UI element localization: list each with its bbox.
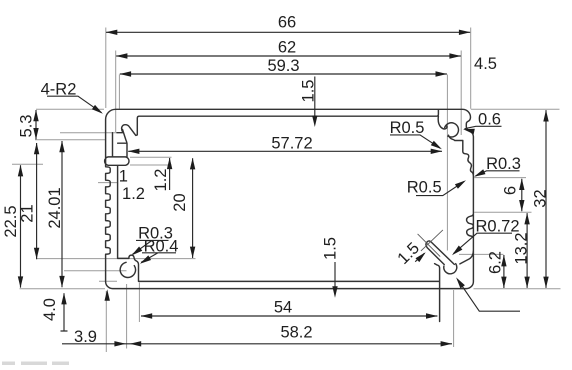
- svg-text:32: 32: [531, 189, 549, 207]
- svg-text:22.5: 22.5: [2, 205, 20, 237]
- svg-text:6.2: 6.2: [486, 251, 504, 274]
- svg-text:1.2: 1.2: [122, 185, 145, 203]
- svg-text:59.3: 59.3: [267, 57, 299, 75]
- svg-text:57.72: 57.72: [271, 135, 312, 153]
- svg-text:R0.4: R0.4: [144, 237, 179, 255]
- svg-text:13.2: 13.2: [512, 232, 530, 264]
- svg-text:0.6: 0.6: [478, 110, 501, 128]
- svg-text:4.0: 4.0: [41, 298, 59, 321]
- svg-text:1.5: 1.5: [321, 237, 339, 260]
- svg-text:R0.5: R0.5: [407, 178, 442, 196]
- svg-text:4-R2: 4-R2: [41, 81, 77, 99]
- svg-text:5.3: 5.3: [17, 115, 35, 138]
- svg-text:21: 21: [18, 204, 36, 222]
- svg-text:24.01: 24.01: [46, 187, 64, 228]
- svg-text:54: 54: [274, 299, 292, 317]
- svg-text:R0.3: R0.3: [486, 155, 521, 173]
- svg-text:62: 62: [278, 39, 296, 57]
- svg-text:1: 1: [119, 168, 128, 186]
- svg-text:6: 6: [501, 186, 519, 195]
- svg-text:4.5: 4.5: [474, 55, 497, 73]
- svg-text:66: 66: [278, 14, 296, 32]
- svg-text:58.2: 58.2: [280, 324, 312, 342]
- svg-text:R0.5: R0.5: [390, 119, 425, 137]
- svg-text:1.5: 1.5: [299, 80, 317, 103]
- svg-text:20: 20: [171, 193, 189, 211]
- svg-text:1.2: 1.2: [152, 169, 170, 192]
- svg-text:3.9: 3.9: [74, 328, 97, 346]
